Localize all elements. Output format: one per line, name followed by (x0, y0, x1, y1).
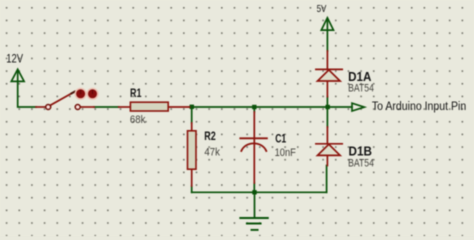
svg-text:12V: 12V (6, 51, 23, 65)
svg-text:C1: C1 (275, 131, 286, 145)
svg-text:BAT54: BAT54 (348, 157, 374, 169)
svg-text:To Arduino Input Pin: To Arduino Input Pin (372, 101, 466, 113)
svg-text:R1: R1 (130, 86, 142, 100)
svg-text:5V: 5V (317, 3, 327, 15)
svg-text:10nF: 10nF (275, 147, 297, 159)
svg-text:BAT54: BAT54 (348, 82, 374, 94)
svg-text:68k: 68k (130, 114, 146, 126)
svg-text:R2: R2 (204, 129, 216, 143)
svg-text:47k: 47k (204, 147, 220, 159)
